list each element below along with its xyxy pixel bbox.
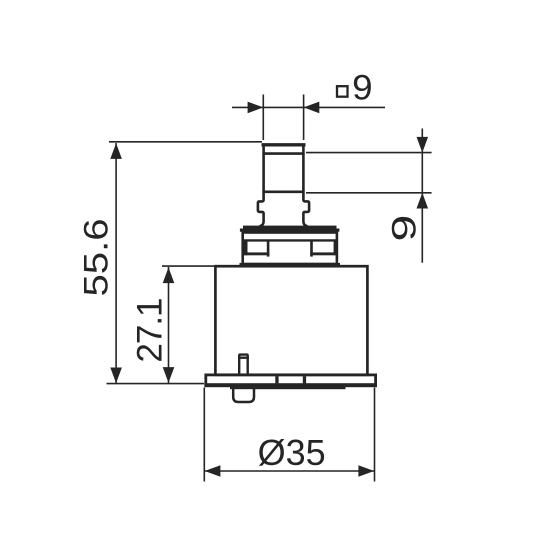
flange tick right (303, 376, 306, 383)
svg-text:9: 9 (386, 215, 424, 242)
dim sq9 square glyph (337, 86, 348, 97)
left window left border (243, 241, 247, 256)
dim 9 up arrow (417, 193, 429, 209)
cap inner top line (242, 239, 339, 241)
dim 9 lower extension line (306, 192, 432, 194)
dim dia35 dimension line (204, 470, 374, 472)
dim dia35 left extension line (203, 388, 205, 482)
dim 9 down arrow (417, 137, 429, 153)
dim dia35 right arrow (358, 465, 374, 477)
svg-text:27.1: 27.1 (131, 298, 170, 362)
dim 55.6 bottom extension line (107, 383, 205, 385)
svg-text:55.6: 55.6 (77, 219, 115, 297)
cap seal bar upper (243, 226, 337, 229)
dim sq9 left-pointing arrow (304, 102, 320, 114)
dim 27.1 top extension line (162, 265, 214, 267)
stem top bar (262, 143, 306, 146)
right window left border (310, 241, 313, 257)
dim dia35 right extension line (374, 388, 376, 482)
dim 27.1 up arrow (163, 267, 175, 283)
dim 55.6 up arrow (110, 143, 122, 159)
stem right side (303, 144, 309, 227)
tab under flange (233, 387, 254, 403)
left window bottom border (243, 252, 269, 255)
cap body outline (243, 233, 337, 265)
dim dia35 left arrow (205, 465, 221, 477)
dim 27.1 down arrow (163, 367, 175, 383)
cap bottom bar (240, 263, 341, 267)
base strip under flange (230, 386, 346, 389)
dim 9 upper extension line (306, 152, 432, 154)
right window right border (334, 241, 338, 256)
stem groove line lower (262, 191, 304, 194)
dim 55.6 top extension line (109, 141, 262, 143)
cap seal bar lower (240, 229, 340, 232)
right window bottom border (310, 252, 336, 255)
svg-text:Ø35: Ø35 (258, 432, 326, 473)
svg-text:9: 9 (352, 69, 373, 108)
flange tick left (275, 376, 278, 383)
pin cap line (238, 357, 249, 359)
left window right border (267, 241, 270, 257)
dim 9 dimension line (421, 129, 423, 263)
dim 27.1 dimension line (168, 267, 170, 383)
dim sq9 right extension line (303, 95, 305, 141)
pin outline (239, 355, 248, 375)
flange outline (206, 375, 376, 385)
body outline (215, 266, 367, 375)
dim sq9 left extension line (262, 95, 264, 141)
dim sq9 right-pointing arrow (248, 102, 264, 114)
stem groove line upper (262, 152, 304, 155)
stem left side (258, 144, 264, 227)
dim 55.6 dimension line (115, 143, 117, 383)
flange bottom thick line (204, 383, 377, 387)
dim 55.6 down arrow (110, 368, 122, 384)
dim sq9 dimension line (232, 106, 385, 108)
